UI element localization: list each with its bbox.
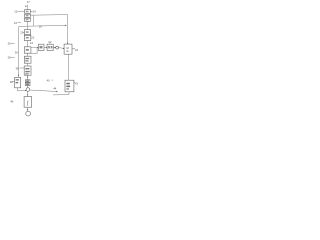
svg-text:12: 12 [14, 10, 18, 14]
svg-text:38: 38 [10, 80, 14, 84]
svg-text:40: 40 [47, 78, 51, 82]
svg-text:26: 26 [8, 42, 12, 46]
svg-text:32: 32 [48, 40, 52, 44]
svg-text:30: 30 [15, 51, 19, 55]
svg-text:16: 16 [14, 21, 18, 25]
svg-text:34: 34 [75, 48, 79, 52]
svg-text:20: 20 [20, 31, 24, 35]
svg-text:24: 24 [30, 41, 34, 45]
svg-text:17: 17 [27, 0, 31, 4]
svg-text:14: 14 [33, 9, 37, 13]
svg-text:36: 36 [16, 67, 20, 71]
svg-text:42: 42 [75, 81, 79, 85]
svg-text:28: 28 [8, 56, 12, 60]
svg-text:18: 18 [39, 24, 43, 28]
svg-text:46: 46 [10, 100, 14, 104]
svg-text:22: 22 [31, 36, 35, 40]
svg-text:44: 44 [53, 86, 57, 90]
